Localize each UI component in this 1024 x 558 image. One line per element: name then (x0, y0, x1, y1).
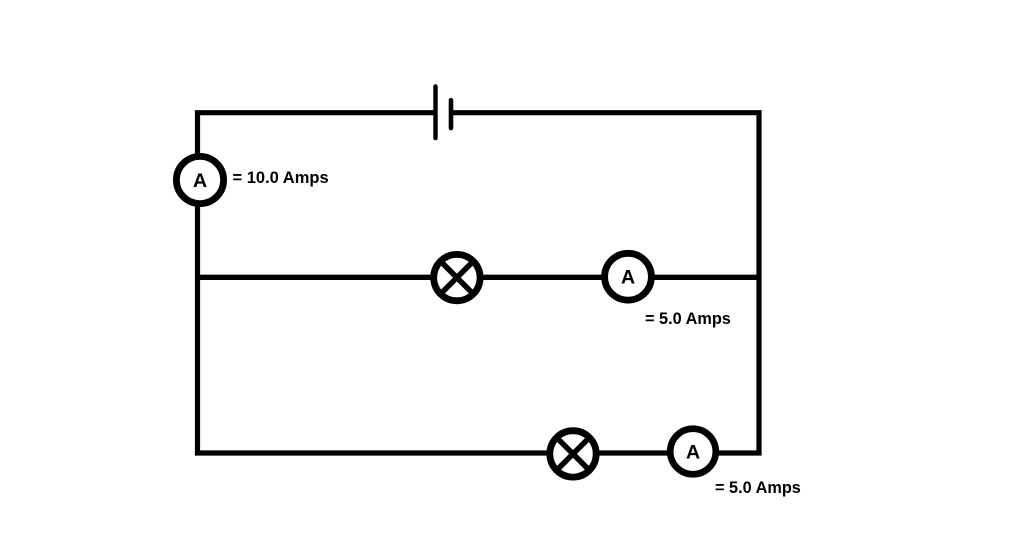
lamp L1 (middle branch) (434, 254, 480, 300)
svg-text:A: A (686, 442, 700, 464)
svg-text:= 5.0 Amps: = 5.0 Amps (715, 479, 801, 497)
ammeter A3 (bottom wire, 5.0 Amps) (670, 429, 716, 475)
battery cell: short plate (negative) (449, 100, 454, 128)
wire: main loop (top, left, bottom, right rails with battery gap at top) (198, 113, 760, 453)
lamp L2 (bottom wire) (550, 431, 596, 477)
svg-text:A: A (193, 170, 207, 192)
svg-text:= 5.0 Amps: = 5.0 Amps (645, 310, 731, 328)
svg-text:= 10.0 Amps: = 10.0 Amps (233, 169, 329, 187)
battery cell: long plate (positive) (433, 86, 437, 138)
svg-text:A: A (621, 267, 635, 289)
ammeter A1 (left rail, 10.0 Amps) (176, 156, 223, 203)
ammeter A2 (middle branch, 5.0 Amps) (605, 253, 652, 300)
wire: middle branch from left rail to right rail (198, 275, 760, 280)
